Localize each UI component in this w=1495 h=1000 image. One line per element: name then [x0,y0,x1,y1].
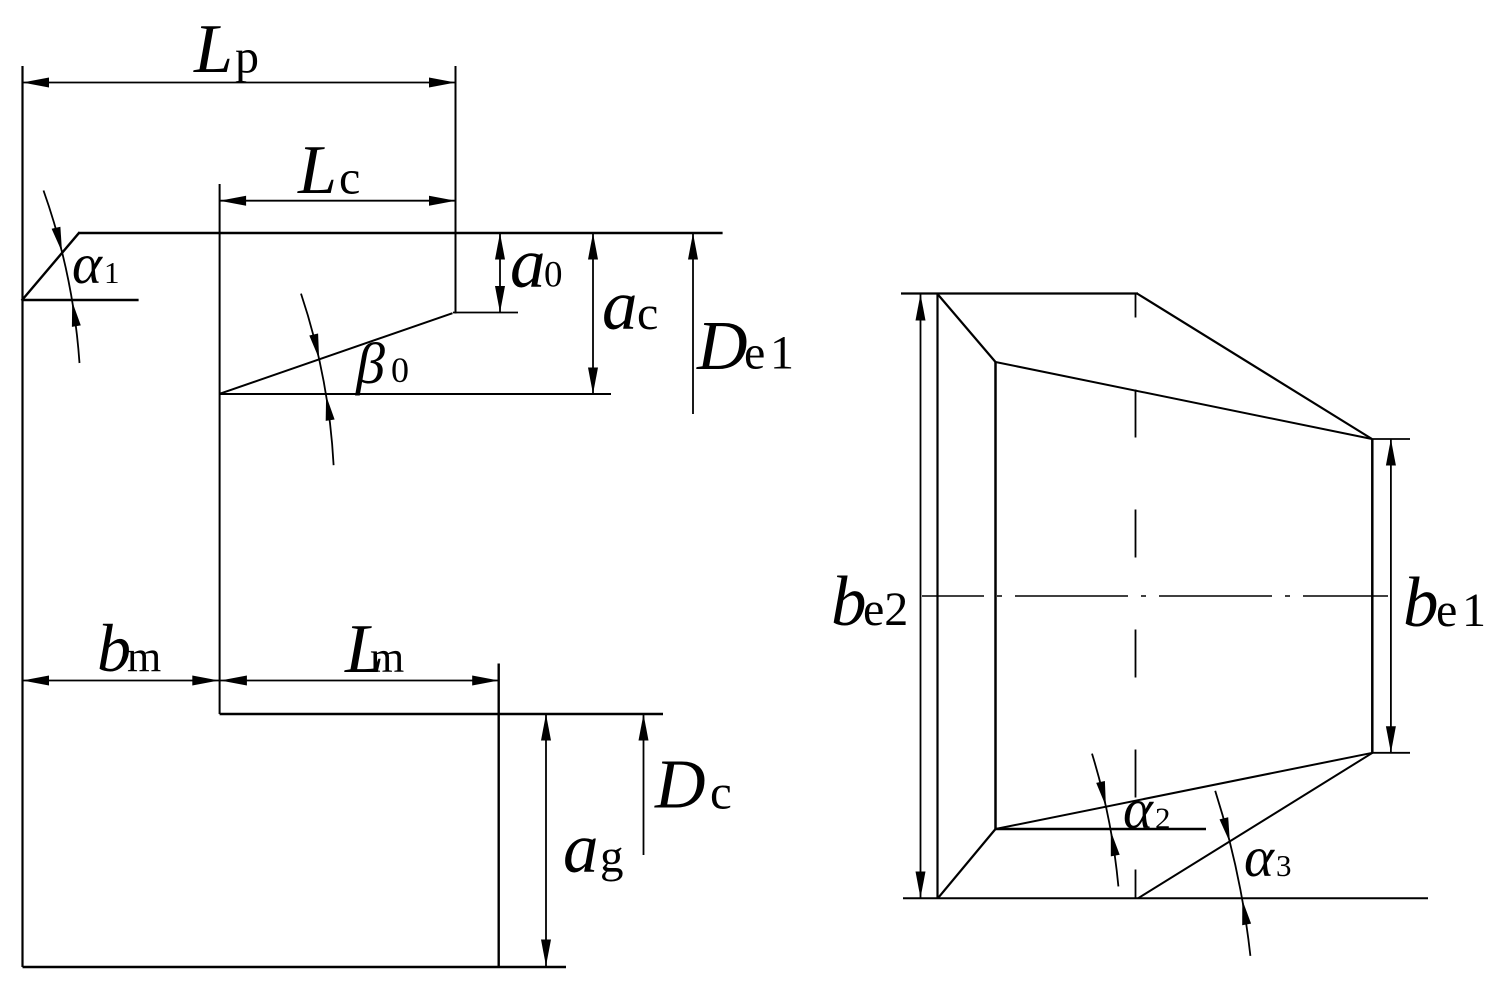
profile left edge [21,66,23,967]
beta0 angle arc [301,294,334,466]
die outer top slope [1137,294,1372,440]
ag dimension line [541,714,551,966]
horizontal centerline [922,595,1388,597]
die outer bottom slope [1138,753,1373,899]
die bottom reference line [903,897,1428,899]
profile step vertical [498,664,500,968]
be1 top extension tick [1372,438,1410,440]
die inner left edge [994,362,997,829]
profile bottom edge [23,966,567,968]
die top-left chamfer [938,294,996,362]
alpha2 reference line [995,828,1206,830]
profile inner vertical / Lc extension [219,184,221,714]
be2 dimension line [916,294,926,898]
ac dimension line [588,233,598,394]
die top edge [901,292,1138,294]
die inner top slope [996,362,1373,439]
Lp dimension line [23,78,456,88]
die inner bottom slope [996,753,1373,829]
alpha3 angle arc [1215,791,1250,956]
be1 dimension line [1386,439,1396,753]
profile right vertical / Lp extension [455,66,457,314]
Lc dimension line [220,196,456,206]
Dc dimension line [639,714,649,855]
profile step edge [220,713,663,715]
a0 dimension line [495,233,505,313]
die right edge [1371,439,1374,753]
vertical centerline [1135,294,1137,899]
bm and Lm dimension line [23,676,499,686]
a0 reference line [453,312,518,314]
profile chamfer edge [22,232,80,300]
profile top edge [79,232,723,235]
die bottom-left chamfer [938,829,996,898]
beta0 sloped edge [220,313,453,394]
be1 bottom extension tick [1372,752,1410,754]
De1 dimension line [688,233,698,414]
alpha1 angle arc [44,191,80,364]
a_c reference line [220,393,611,395]
alpha2 angle arc [1092,754,1118,887]
die outer left edge [936,294,938,899]
alpha1 reference line [23,299,139,301]
